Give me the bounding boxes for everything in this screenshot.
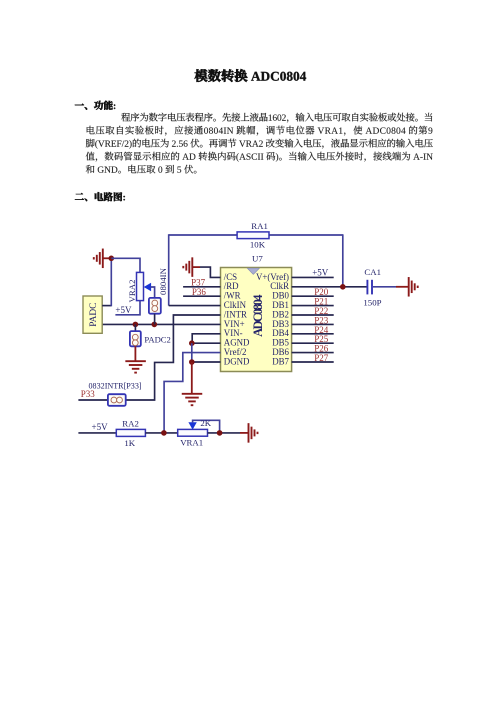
- wire DB2 pin stub: [292, 314, 334, 316]
- svg-text:RA1: RA1: [251, 221, 268, 231]
- wire PADC-1 up to ground node: [110, 258, 112, 306]
- wire +5V to RA2: [78, 432, 116, 434]
- wire VRA2 wiper to jumper 0804IN: [151, 287, 155, 298]
- wire DB3 pin stub: [292, 323, 334, 325]
- wire RA1 left segment: [169, 234, 237, 236]
- pin stub PADC-1: [102, 305, 111, 307]
- wire P33 to jumper X2: [78, 399, 108, 401]
- wire VRA2 bottom to +5V: [115, 301, 140, 315]
- potentiometer VRA1 body: [178, 429, 208, 436]
- svg-text:VRA1: VRA1: [180, 437, 203, 447]
- wire jumper 0804IN to VIN+ line: [154, 314, 156, 325]
- capacitor CA1 plates: [367, 280, 372, 295]
- junction ground/VRA2/PADC: [109, 255, 115, 261]
- svg-text:+5V: +5V: [92, 422, 109, 432]
- svg-text:PADC2: PADC2: [144, 334, 170, 344]
- wire /WR pin stub: [183, 295, 220, 297]
- wire VRA1 to ground: [208, 432, 241, 434]
- wire RA1-left vertical to ClkIN: [168, 234, 170, 305]
- resistor RA1 body: [237, 232, 269, 239]
- ground stem below PADC2: [134, 346, 136, 361]
- svg-text:P33: P33: [81, 389, 96, 399]
- svg-text:+5V: +5V: [115, 305, 132, 315]
- wire RA1-right vertical to ClkR: [342, 234, 344, 286]
- ground (bottom rail): [249, 423, 258, 443]
- svg-text:+5V: +5V: [312, 267, 329, 277]
- wire DB0 pin stub: [292, 295, 334, 297]
- svg-text:VRA2: VRA2: [127, 280, 137, 303]
- svg-text:10K: 10K: [250, 240, 266, 250]
- wire VIN+ line to jumper PADC2: [134, 324, 136, 331]
- wire A-IN line (PADC to VIN+): [102, 323, 220, 325]
- wire CA1 to ground: [373, 286, 396, 288]
- potentiometer VRA2 body: [137, 272, 144, 300]
- wire DB1 pin stub: [292, 305, 334, 307]
- svg-text:RA2: RA2: [122, 418, 139, 428]
- ground (at /CS): [183, 257, 192, 277]
- wire AGND pin stub: [192, 342, 221, 344]
- wire DB4 pin stub: [292, 333, 334, 335]
- wire DB5 pin stub: [292, 342, 334, 344]
- ground stem at /CS: [192, 266, 200, 268]
- wire VRA1 wiper loop: [193, 420, 220, 433]
- svg-text:ADC0804: ADC0804: [251, 295, 265, 337]
- ground stem near VRA2: [103, 257, 112, 259]
- IC U1 ADC0804 (U7) body: [221, 268, 292, 372]
- potentiometer VRA1 wiper arrow: [188, 422, 196, 429]
- wire V+(Vref) pin stub: [292, 276, 334, 278]
- wire /INTR to jumper X2: [126, 315, 221, 400]
- svg-text:DGND: DGND: [224, 356, 250, 366]
- jumper X2 (0832INTR): [108, 394, 126, 406]
- wire DB7 pin stub: [292, 361, 334, 363]
- svg-text:150P: 150P: [363, 297, 381, 307]
- wire /RD pin stub: [183, 286, 220, 288]
- wire ClkR to CA1: [292, 286, 367, 288]
- junction VIN+/0804IN jumper: [152, 322, 158, 328]
- wire / pin stub ClkIN: [169, 305, 221, 307]
- wire DGND pin stub: [192, 361, 221, 363]
- ground stem bottom rail: [240, 432, 249, 434]
- wire ground node to VRA2 top: [111, 258, 140, 272]
- ground (near VRA2): [94, 249, 103, 268]
- svg-text:2K: 2K: [200, 418, 211, 428]
- wire RA1 right segment: [269, 234, 343, 236]
- jumper 0804IN: [149, 298, 161, 314]
- wire RA2 to VRA1: [145, 432, 177, 434]
- svg-text:U7: U7: [252, 254, 263, 264]
- svg-text:0804IN: 0804IN: [158, 267, 168, 295]
- svg-text:1K: 1K: [124, 438, 135, 448]
- junction VRA1 wiper/rail: [217, 430, 223, 436]
- junction AGND: [189, 340, 195, 346]
- wire VIN- to AGND node: [192, 334, 220, 343]
- junction DGND: [189, 359, 195, 365]
- svg-text:PADC: PADC: [89, 303, 99, 327]
- wire DB6 pin stub: [292, 352, 334, 354]
- jumper PADC2: [130, 331, 141, 346]
- svg-text:0832INTR[P33]: 0832INTR[P33]: [89, 381, 142, 390]
- potentiometer VRA2 wiper arrow: [144, 283, 151, 291]
- ground stem below DGND: [191, 362, 193, 394]
- wire AGND to DGND: [191, 343, 193, 362]
- svg-text:P36: P36: [192, 287, 207, 297]
- resistor RA2 body: [116, 429, 145, 436]
- junction ClkR/RA1/CA1: [340, 284, 346, 290]
- junction Vref/2 node: [161, 430, 167, 436]
- connector PADC body: [83, 296, 102, 333]
- junction VIN+/PADC2: [133, 322, 139, 328]
- svg-text:CA1: CA1: [364, 267, 381, 277]
- wire ground to /CS pin: [200, 267, 221, 277]
- ground (below PADC2): [125, 361, 146, 372]
- wire Vref/2 to divider: [164, 353, 220, 433]
- ground (below DGND): [182, 394, 203, 405]
- ground (right of CA1): [409, 277, 418, 297]
- ground stem right of CA1: [396, 286, 409, 288]
- svg-text:DB7: DB7: [272, 356, 289, 366]
- svg-text:P27: P27: [314, 353, 329, 363]
